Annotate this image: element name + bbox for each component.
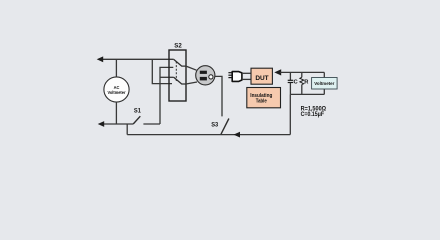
wire: junction drop from bottom rail to return rail bbox=[126, 124, 128, 135]
receptacle slot (top) bbox=[200, 71, 207, 74]
resistor R zigzag bbox=[300, 77, 304, 84]
svg-text:Voltmeter: Voltmeter bbox=[314, 81, 334, 86]
svg-text:Voltmeter: Voltmeter bbox=[108, 90, 126, 95]
wire: drop from top rail to S2 pole2 bottom throw bbox=[152, 59, 172, 83]
svg-text:DUT: DUT bbox=[255, 75, 268, 82]
wire: receptacle ground to S3 bbox=[215, 76, 222, 116]
svg-text:S2: S2 bbox=[174, 43, 182, 50]
plug body bbox=[232, 72, 242, 82]
AC line arrow (top left terminal) bbox=[97, 56, 104, 62]
plug prong (middle) bbox=[228, 74, 231, 76]
svg-text:S3: S3 bbox=[211, 121, 219, 128]
resistor R branch bottom wire bbox=[301, 85, 303, 95]
svg-text:S1: S1 bbox=[134, 108, 142, 115]
wire: return rail bbox=[127, 134, 290, 136]
wire: riser branch to S2 pole2 top throw bbox=[160, 76, 174, 78]
wire: plug cord (bottom) to DUT bbox=[242, 78, 251, 80]
switch S1 blade bbox=[133, 116, 140, 124]
receptacle slot (bottom) bbox=[200, 77, 207, 81]
capacitor C branch top wire bbox=[289, 72, 291, 80]
switch S2 pole2 blade bbox=[174, 77, 186, 84]
switch S3 blade bbox=[221, 119, 229, 135]
wire: bottom AC line rail (left of S1) bbox=[100, 123, 133, 125]
wire: network bottom rail bbox=[290, 93, 324, 95]
background panel bbox=[0, 0, 440, 180]
probe arrow to DUT bbox=[274, 69, 281, 75]
DUT box bbox=[251, 68, 272, 84]
wire: probe line to measuring network bbox=[280, 71, 324, 73]
wire: voltmeter bottom branch bbox=[115, 102, 117, 124]
capacitor C branch bottom wire bbox=[289, 83, 291, 95]
return rail arrow bbox=[234, 132, 241, 138]
voltmeter box bbox=[312, 78, 338, 90]
capacitor C top plate bbox=[288, 79, 294, 81]
wire: riser from S1 up to S2 (pole1 bottom throw) bbox=[160, 67, 173, 124]
wire: network right leg (behind voltmeter) bbox=[323, 72, 325, 94]
switch S2 box bbox=[169, 50, 186, 101]
wire: top AC line rail bbox=[99, 58, 174, 60]
receptacle (outlet) body bbox=[196, 66, 215, 85]
wire: network return riser down bbox=[289, 94, 291, 134]
wire: S1 fixed contact to riser bbox=[143, 123, 160, 125]
resistor R branch top wire bbox=[301, 72, 303, 77]
switch S2 gang link (dashed) bbox=[175, 62, 177, 82]
plug prong (top) bbox=[228, 72, 231, 74]
svg-text:Table: Table bbox=[256, 98, 267, 104]
receptacle ground hole bbox=[209, 75, 213, 79]
wire: S2 pole2 output to receptacle bbox=[186, 82, 197, 84]
switch S2 pole1 blade bbox=[174, 59, 186, 66]
svg-text:C=0.15μF: C=0.15μF bbox=[301, 112, 325, 118]
plug prong (bottom) bbox=[228, 77, 231, 79]
AC line arrow (bottom left terminal) bbox=[98, 121, 105, 127]
AC Voltmeter circle bbox=[104, 77, 129, 102]
wire: plug cord (top) to DUT bbox=[242, 72, 251, 74]
capacitor C bottom plate bbox=[288, 82, 294, 84]
insulating table box bbox=[247, 88, 281, 108]
wire: voltmeter top branch bbox=[115, 59, 117, 77]
wire: S2 pole1 output to receptacle bbox=[186, 66, 197, 70]
